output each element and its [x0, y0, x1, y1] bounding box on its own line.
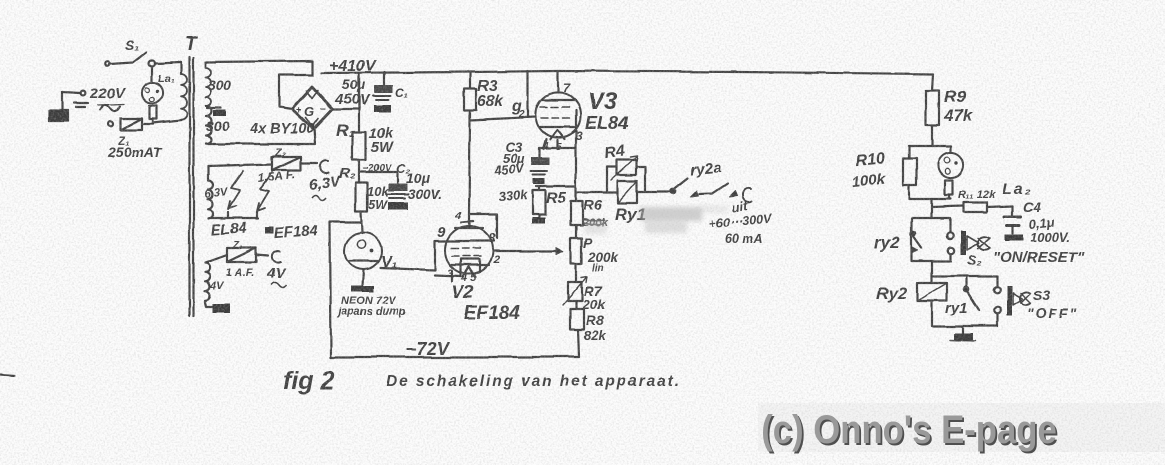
switch ry1 [965, 276, 967, 287]
ground relay [962, 326, 964, 333]
capacitor C3 [538, 148, 540, 157]
wire S1 to primary top [155, 62, 181, 63]
coil heater 4V [205, 263, 210, 302]
wire V3 bottom bar [539, 147, 575, 149]
wire heater box top [208, 164, 272, 166]
wire rectifier AC loop [279, 75, 313, 109]
switch S3 [1007, 286, 1012, 315]
AC source symbol [100, 105, 120, 111]
heater element EF184 [257, 172, 272, 211]
node uit terminal [742, 188, 751, 201]
potentiometer P 200k [571, 238, 582, 264]
wire relay bottom [932, 325, 998, 327]
wire V2 top box [469, 214, 497, 238]
switch S2 [961, 231, 967, 255]
wire g2 from rail [527, 71, 529, 117]
resistor R3 68k [469, 72, 471, 89]
connector C heater [301, 162, 317, 164]
watermark (c) Onno's E-page [761, 407, 1058, 454]
svg-text:(c) Onno's E-page: (c) Onno's E-page [761, 407, 1057, 452]
resistor La1 series [150, 106, 158, 119]
resistor R1 10k 5W [358, 73, 360, 132]
coil secondary 300+300 [206, 62, 212, 106]
wire Z1 to La1 junction [142, 123, 153, 125]
wire HT secondary box top [206, 61, 313, 75]
node heater blob [265, 227, 274, 234]
fuse Z3 1A [227, 248, 256, 262]
relay coil Ry1 [618, 181, 638, 203]
ground mains earth block [49, 110, 68, 121]
wire R9 split [909, 145, 951, 147]
label 200k R6 [583, 219, 605, 225]
pin strokes V2 [452, 259, 461, 281]
wire rail drop to R9 [932, 74, 933, 91]
watermark band [758, 403, 1165, 452]
transformer core T [188, 57, 190, 316]
resistor R10 100k [908, 146, 910, 158]
wire earth drop [61, 92, 63, 110]
electrode V1 bottom [362, 270, 363, 287]
lamp La1 [151, 66, 153, 83]
wire cathode to relay [576, 191, 617, 193]
capacitor C2 [361, 172, 397, 183]
wire R3 to g2 [470, 110, 535, 120]
resistor R4 [606, 167, 608, 192]
wire to R11 [930, 199, 932, 218]
coil heater 6.3V [208, 166, 213, 218]
contacts ry1 [996, 276, 998, 287]
wire heater box bottom [208, 212, 258, 218]
wire mains input [62, 92, 80, 93]
resistor R8 82k [571, 309, 585, 329]
wire +410V rail [322, 71, 933, 74]
resistor R5 [538, 186, 540, 190]
tube V1 neon [345, 233, 382, 270]
wire cathode column [575, 130, 577, 201]
resistor R11 [964, 203, 987, 213]
wire -72V left branch [330, 222, 361, 357]
mark bottom-left dash [0, 375, 14, 376]
wire centre tap [207, 107, 221, 109]
resistor R2 10k 5W [356, 183, 368, 211]
wire R3 column to V2 [469, 120, 470, 214]
relay coil Ry2 [917, 283, 947, 301]
relay contact ry2 [912, 218, 950, 261]
connector C 4V [256, 255, 268, 256]
wire cathode tie [536, 185, 576, 187]
capacitor C1 [383, 72, 385, 85]
resistor R7 20k [568, 282, 582, 301]
ground 4V winding [205, 302, 218, 307]
node Z1 input terminal [108, 122, 113, 127]
tube V2 EF184 [445, 226, 493, 274]
fuse Z2 1.5A [272, 157, 301, 171]
ground earth bars [74, 103, 88, 107]
wire -72V bottom [331, 356, 579, 358]
diode bridge 4x BY100 [292, 87, 332, 129]
tube V3 EL84 [557, 71, 559, 93]
wire La2 bottom [909, 198, 951, 200]
heater element EL84 [228, 171, 243, 209]
switch ry2a [670, 189, 675, 194]
capacitor C4 [1011, 206, 1013, 216]
resistor R9 47k [926, 91, 940, 125]
coil transformer primary [180, 62, 182, 74]
fuse Z1 [120, 119, 142, 131]
wire bridge + output [332, 73, 359, 109]
wire ry2 to Ry2 [930, 261, 932, 283]
node mains terminal [81, 91, 86, 96]
pin strokes V3 4,5 [543, 139, 557, 149]
wire V1 to V2 grid [380, 241, 435, 270]
faint smudges [585, 205, 728, 234]
lamp La2 [950, 146, 952, 153]
resistor R6 [571, 201, 583, 225]
switch S1 [105, 62, 110, 67]
wire V2 anode arrow to P [493, 250, 556, 252]
wire HT secondary box bottom [206, 128, 315, 144]
